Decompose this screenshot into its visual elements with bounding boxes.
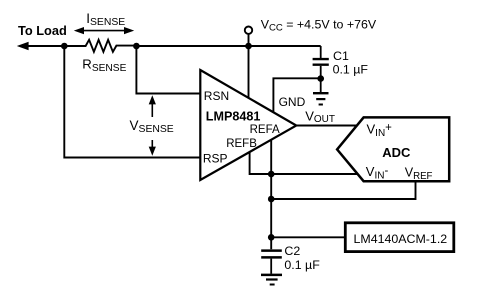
wire: VCC terminal stub — [248, 34, 250, 46]
junction node: C1 bottom / GND net — [317, 75, 324, 82]
arrowhead: To Load — [17, 42, 29, 51]
voltage reference LM4140ACM-1.2 box — [345, 223, 454, 252]
svg-text:ADC: ADC — [382, 145, 411, 160]
svg-text:0.1 µF: 0.1 µF — [284, 258, 320, 272]
svg-text:C1: C1 — [333, 49, 349, 63]
wire: top bus rail — [27, 45, 64, 47]
junction node: VCC tap — [245, 43, 252, 50]
terminal: VCC open circle — [245, 27, 252, 34]
arrow: VSENSE double-headed — [149, 95, 156, 156]
svg-text:LM4140ACM-1.2: LM4140ACM-1.2 — [354, 232, 448, 246]
svg-text:LMP8481: LMP8481 — [206, 110, 261, 124]
svg-text:RSP: RSP — [203, 152, 228, 166]
arrow: ISENSE double-headed — [74, 27, 134, 34]
svg-text:C2: C2 — [284, 244, 300, 258]
capacitor C1 — [313, 46, 329, 79]
junction node: REF net at VREF — [268, 196, 275, 203]
svg-text:0.1 µF: 0.1 µF — [333, 63, 369, 77]
junction node: bus left — [61, 43, 68, 50]
wire: node to LM4140 box — [271, 236, 345, 238]
svg-text:To Load: To Load — [18, 23, 67, 38]
wire: C1 bottom to GND pin of LMP8481 — [273, 78, 320, 112]
junction node: bus right of resistor — [133, 43, 140, 50]
ground under C2 — [261, 275, 282, 285]
svg-text:RSN: RSN — [204, 89, 229, 103]
wire: left vertical from bus to RSP — [64, 46, 201, 158]
capacitor C2 — [261, 251, 282, 274]
wire: REFB corner to REFA drop — [250, 152, 272, 174]
wire: resistor right drop to RSN — [136, 46, 201, 94]
op-amp U1 LMP8481 triangle — [200, 70, 296, 180]
svg-text:REFA: REFA — [250, 124, 280, 136]
wire: REFA drop down to C2 node — [270, 140, 272, 250]
wire: bus rail right of resistor — [136, 45, 320, 47]
wire: VOUT apex to ADC VIN+ — [294, 125, 358, 127]
wire: ADC VREF down and left to node — [271, 180, 415, 199]
wire: V+ supply drop into LMP8481 — [248, 46, 250, 98]
junction node: REF net at C2 — [268, 234, 275, 241]
svg-text:GND: GND — [279, 95, 306, 109]
resistor RSENSE zigzag — [64, 40, 136, 52]
junction node: REF net at VIN- — [268, 171, 275, 178]
ground under C1 — [313, 79, 329, 105]
ADC block — [337, 117, 449, 181]
wire: node to ADC VIN- — [271, 173, 358, 175]
svg-text:REFB: REFB — [226, 138, 257, 150]
